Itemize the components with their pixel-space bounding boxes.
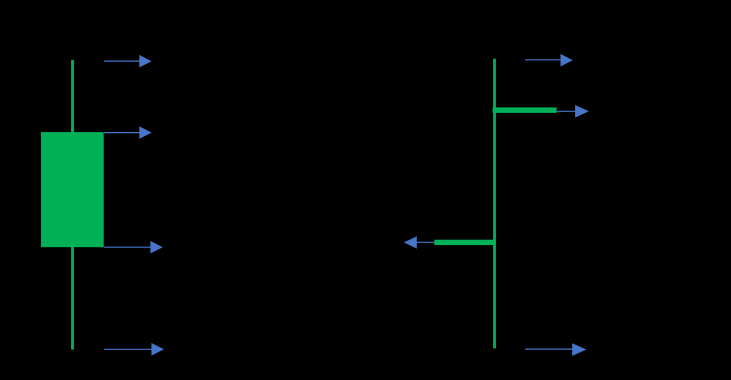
OHLC close tick (right) [493,107,557,113]
arrow: candle low [104,343,164,356]
arrow: candle close [104,126,152,139]
arrow: candle open [104,241,163,254]
arrow: candle high [104,55,152,68]
arrow: bar open (points left) [404,236,434,248]
OHLC open tick (left) [434,240,496,245]
arrow: bar close [557,105,589,118]
candlestick body [41,132,104,247]
OHLC bar vertical line [493,59,496,349]
arrow: bar high [525,54,573,67]
candlestick wick [71,60,74,350]
arrow: bar low [525,343,586,356]
